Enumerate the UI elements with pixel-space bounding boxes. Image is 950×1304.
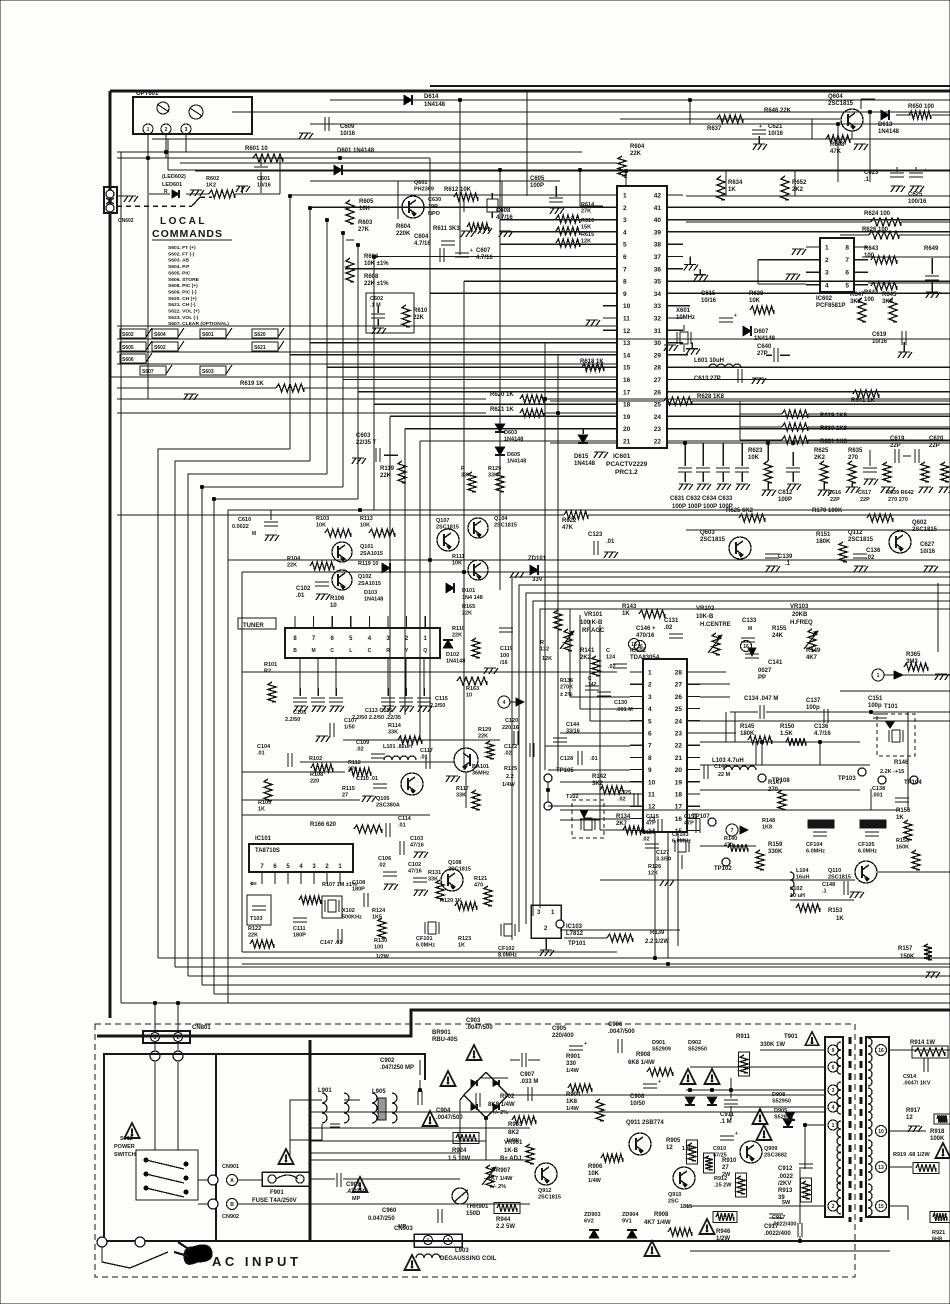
wire T901 pin2 [686,1205,826,1207]
svg-text:+: + [470,248,473,254]
svg-text:12: 12 [623,328,631,335]
svg-text:27: 27 [675,682,683,689]
svg-text:1N4148: 1N4148 [446,659,465,665]
svg-text:100p: 100p [806,705,820,711]
wire x590 drop2 [589,620,591,721]
svg-text:2.2: 2.2 [506,774,514,780]
diode D607 1N4148 [743,326,751,336]
svg-text:+/- 2%: +/- 2% [490,1184,506,1190]
svg-text:R158: R158 [896,838,909,844]
ground IC601 pin36 [699,269,701,275]
svg-text:A: A [230,1178,234,1184]
warning triangle c902 [441,1071,456,1086]
svg-text:10/16: 10/16 [701,298,717,304]
svg-text:10K: 10K [749,298,761,304]
svg-text:S623. VOL (-): S623. VOL (-) [168,315,199,321]
svg-text:R610: R610 [413,308,428,314]
svg-text:10K ±1%: 10K ±1% [364,261,389,267]
svg-text:2SC1815: 2SC1815 [828,101,854,107]
svg-text:180P: 180P [293,933,306,939]
svg-text:C122: C122 [504,744,517,750]
wire IF row y800 [242,799,360,801]
svg-text:22K: 22K [380,473,392,479]
svg-text:500KHz: 500KHz [342,915,362,921]
svg-text:21: 21 [675,755,683,762]
svg-text:24K: 24K [772,633,784,639]
svg-text:D603: D603 [504,430,517,436]
svg-text:47/16: 47/16 [408,869,422,875]
svg-text:T101: T101 [884,704,898,710]
svg-text:22P: 22P [860,497,870,503]
svg-text:R103: R103 [316,516,329,522]
wire tuner top [228,559,950,561]
svg-text:33V: 33V [532,577,543,583]
svg-text:42: 42 [654,193,662,200]
svg-text:6.0MHz: 6.0MHz [858,849,877,855]
svg-text:R912: R912 [714,1176,727,1182]
wire top bus 5 [117,151,582,153]
wire r630 row [740,426,782,428]
wire bus vertical up 5 [357,245,359,499]
svg-text:C905: C905 [552,1026,567,1032]
ground IC601 pin30 [691,343,693,349]
svg-text:330K 1W: 330K 1W [760,1042,785,1048]
svg-text:22P: 22P [830,497,840,503]
svg-text:10K-B: 10K-B [696,614,714,620]
svg-text:R614: R614 [581,202,595,208]
svg-text:R110: R110 [452,626,465,632]
wire r620 [117,398,486,400]
wire IC601 pin 18 [374,403,603,405]
wire top bus y163 [180,162,617,164]
svg-text:R140: R140 [724,836,737,842]
wire r631 row [740,439,782,441]
svg-text:S604. P.P: S604. P.P [168,264,190,270]
svg-text:X601: X601 [676,308,691,314]
wire IF vertical x466 [465,772,467,808]
svg-text:S912: S912 [120,1136,133,1142]
svg-text:CF101: CF101 [416,936,433,942]
svg-text:R620 1K: R620 1K [490,392,514,398]
wire bus vertical up 6 [373,257,375,510]
svg-text:C144: C144 [566,722,580,728]
wire mid verticals [725,712,727,742]
fuse F901 [262,1172,310,1186]
wire vertical x464 [463,281,465,770]
svg-text:POWER: POWER [114,1144,135,1150]
svg-text:10/16: 10/16 [872,339,888,345]
svg-text:H.CENTRE: H.CENTRE [700,622,731,628]
svg-text:C901: C901 [346,1182,361,1188]
svg-text:100p: 100p [868,703,882,709]
svg-text:8K2: 8K2 [508,1130,520,1136]
warning triangle bottom1 [700,1219,715,1234]
resistor R618 1K [582,363,604,371]
warning triangle fuse [279,1149,294,1164]
wire IC102 pin26 right [700,696,730,698]
svg-text:RF.AGC: RF.AGC [582,628,605,634]
svg-text:S52909: S52909 [652,1047,671,1053]
wire vertical x838 top [837,124,839,182]
svg-text:R911: R911 [736,1034,751,1040]
svg-text:L103 4.7uH: L103 4.7uH [712,758,744,764]
wire power row y1128 [310,1127,530,1129]
svg-text:C619: C619 [890,436,905,442]
svg-text:IC602: IC602 [816,296,833,302]
wire vertical x908 [907,712,909,810]
wire mid nest 4 [533,601,950,916]
svg-text:S620: S620 [254,332,266,338]
main board border left [109,91,112,1018]
wire R624 row [686,221,871,223]
wire IF row y762 [300,761,452,763]
svg-text:R611 3K3: R611 3K3 [433,226,460,232]
svg-text:10K: 10K [748,455,760,461]
svg-text:18: 18 [675,792,683,799]
svg-text:10MHz: 10MHz [676,315,695,321]
wire top border right extra [430,85,950,87]
svg-text:TP104: TP104 [904,780,922,786]
svg-text:D901: D901 [652,1040,665,1046]
wire staircase 6 [228,510,374,1003]
svg-text:.02: .02 [664,625,673,631]
wire vertical x870 top [869,112,871,182]
resistor R648 47K [826,135,850,143]
svg-text:C137: C137 [806,698,821,704]
svg-text:R646 22K: R646 22K [764,108,792,114]
svg-text:C126: C126 [642,830,655,836]
svg-text:36: 36 [654,266,662,273]
svg-text:10/50: 10/50 [630,1101,646,1107]
wire power row y1141 [310,1140,486,1142]
wire IC102 pin11 left [572,793,630,795]
wire right section rows [704,957,950,959]
wire pin34 right [683,292,950,294]
crystal CF105 [860,820,886,828]
svg-text:R166 620: R166 620 [310,822,337,828]
svg-text:.0047/500: .0047/500 [608,1029,635,1035]
svg-text:C609: C609 [340,124,355,130]
svg-text:2K7 1/4W: 2K7 1/4W [488,1176,513,1182]
svg-text:R612 10K: R612 10K [444,187,472,193]
svg-text:M: M [312,648,316,654]
svg-text:R908: R908 [636,1052,651,1058]
svg-text:C138: C138 [872,786,885,792]
svg-text:2: 2 [623,205,627,212]
resistor R631 1K8 [782,436,808,444]
opto module OPT601 box [133,97,252,134]
svg-text:Q604: Q604 [828,94,843,100]
svg-text:+: + [658,1079,661,1085]
svg-text:R625: R625 [814,448,829,454]
svg-text:47K: 47K [830,149,842,155]
svg-text:1N4 148: 1N4 148 [462,595,483,601]
plug AC [184,1245,212,1264]
svg-text:R637: R637 [707,126,722,132]
T901 primary pin 2 [828,1201,838,1211]
svg-text:2SC1815: 2SC1815 [494,523,517,529]
svg-text:10: 10 [623,303,631,310]
wire mid row [117,514,564,516]
svg-text:13: 13 [878,1165,884,1171]
svg-text:D605: D605 [507,452,520,458]
svg-text:22P: 22P [929,443,940,449]
svg-text:28: 28 [654,365,662,372]
wire top bus 3 [310,123,950,125]
wire IC601 pin 22 [667,440,950,442]
svg-text:OPT601: OPT601 [136,91,159,97]
wire CN801 down a [154,1043,156,1050]
svg-text:C610: C610 [238,517,251,523]
svg-text:R919 .68 1/2W: R919 .68 1/2W [893,1152,930,1158]
resistor R626 100 [869,231,899,239]
wire IC102 pin27 right [700,683,730,685]
transistor Q107 2SC1815 [437,529,459,551]
svg-text:36MHz: 36MHz [472,771,490,777]
dashed wire CN602 [117,205,192,207]
svg-text:.1: .1 [822,889,827,895]
svg-text:C114: C114 [398,816,412,822]
wire IC601 pin 7 [345,268,603,270]
wire IF row y815 [242,814,430,816]
svg-text:D601 1N4148: D601 1N4148 [337,148,375,154]
wire IC102 pin14 left [600,829,630,831]
svg-text:L101 .82uH: L101 .82uH [383,744,412,750]
capacitor C119 100/16 [499,627,513,629]
wire t901 bottom [216,1240,950,1242]
svg-text:.1: .1 [864,177,870,183]
svg-text:10: 10 [466,693,472,699]
svg-text:S602: S602 [154,345,166,351]
svg-text:R165: R165 [462,604,475,610]
wire power h2 [508,1094,826,1096]
svg-text:1: 1 [832,1123,835,1129]
diode D102 1N4148 [443,640,453,648]
main board border top [110,90,950,93]
svg-text:10/16: 10/16 [257,183,271,189]
svg-text:40: 40 [654,217,662,224]
ground LED area [190,189,202,191]
svg-text:R117: R117 [456,786,469,792]
warning triangle right1 [936,1143,950,1158]
svg-text:4: 4 [648,706,652,713]
svg-text:C134 .047 M: C134 .047 M [744,696,778,702]
svg-text:2SC380A: 2SC380A [376,803,400,809]
svg-text:27P: 27P [757,351,768,357]
svg-text:150K: 150K [900,954,915,960]
resistor R634 1K [717,176,725,200]
svg-text:.02: .02 [356,747,364,753]
wire T901 pin6 [690,1066,826,1068]
svg-text:1K: 1K [622,611,630,617]
wire IC601 pin 1 [290,194,603,196]
wire mid nest 2 [519,585,950,932]
svg-text:2SC3682: 2SC3682 [764,1153,787,1159]
svg-text:470/16: 470/16 [636,633,655,639]
wire IC102 pin6 left [560,732,630,734]
svg-text:4: 4 [503,700,506,706]
resistor R628 1K8 [664,397,692,405]
svg-text:10/16: 10/16 [340,131,356,137]
ground IC602 pin1 [792,248,804,250]
svg-text:ZD903: ZD903 [584,1212,601,1218]
svg-text:38: 38 [654,242,662,249]
switch contacts [144,1158,148,1162]
wire IC102 pin23 right [700,732,736,734]
wire power v460 [459,1100,461,1160]
transistor Q910 2SC1815 [673,1167,695,1189]
wire bus vertical up 4 [342,233,344,487]
svg-text:C104: C104 [257,744,271,750]
svg-text:C120: C120 [505,718,518,724]
svg-text:C125: C125 [618,790,631,796]
svg-text:F901: F901 [270,1190,284,1196]
wire OPT601 pin3 down [185,134,187,152]
svg-text:R141: R141 [580,648,595,654]
svg-text:33K: 33K [388,730,398,736]
svg-text:34: 34 [654,291,662,298]
svg-text:2SC1815: 2SC1815 [538,1195,561,1201]
svg-text:S603. AB: S603. AB [168,258,189,264]
boxed resistor R924 [453,1133,479,1144]
ground R365 [935,673,947,675]
svg-text:33/16: 33/16 [566,729,580,735]
svg-text:47P: 47P [646,821,656,827]
svg-text:330K: 330K [768,849,783,855]
wire IC102 pin3 left [570,696,630,698]
svg-text:S606: S606 [122,357,134,363]
svg-text:R124: R124 [372,908,386,914]
svg-text:28: 28 [675,670,683,677]
op-amp IC601 body and pins [617,186,667,448]
wire power top2 [216,1054,425,1080]
svg-text:3K3: 3K3 [850,299,862,305]
svg-text:15: 15 [623,365,631,372]
svg-text:6.0MHz: 6.0MHz [416,943,435,949]
svg-text:2K2: 2K2 [814,455,826,461]
svg-text:.1 M: .1 M [370,303,381,309]
svg-text:6V2: 6V2 [584,1219,594,1225]
resistor R652 2K2 [781,176,789,200]
svg-text:D905: D905 [774,1108,787,1114]
circ16 [741,641,752,652]
zener ZD904 [627,1230,637,1238]
svg-text:2: 2 [165,127,168,133]
svg-text:C136: C136 [866,548,881,554]
svg-text:C960: C960 [382,1208,397,1214]
node 7 arrow [726,824,738,836]
wire tp105 vertical [547,782,549,802]
wire q604 collector [860,99,862,109]
op-amp IC101 body [249,844,353,872]
bridge diodes [471,1080,477,1086]
svg-text:R115: R115 [342,786,355,792]
svg-text:47K: 47K [562,525,574,531]
wire tuner pin drop a [299,658,301,688]
svg-text:R621 1K: R621 1K [490,407,514,413]
svg-text:R649: R649 [924,246,939,252]
svg-text:Q105: Q105 [376,796,389,802]
TUNER label box [238,618,276,629]
svg-text:D102: D102 [446,652,459,658]
wire IC601 pin 40 [667,219,950,221]
svg-text:1N4148: 1N4148 [504,437,523,443]
switch S912 [136,1150,198,1200]
svg-text:4K7: 4K7 [806,655,818,661]
svg-text:TP103: TP103 [838,776,856,782]
ground X601 area [664,344,676,346]
svg-text:X102: X102 [342,908,355,914]
svg-text:6: 6 [832,1065,835,1071]
svg-text:CF102: CF102 [498,946,515,952]
svg-text:T102: T102 [566,794,579,800]
svg-text:41: 41 [654,205,662,212]
svg-text:27: 27 [722,1165,729,1171]
svg-text:.01: .01 [257,751,265,757]
svg-text:Q102: Q102 [358,574,371,580]
svg-text:.02: .02 [378,863,386,869]
connector CN801 [143,1031,190,1043]
svg-text:C907: C907 [520,1072,535,1078]
svg-text:R914 1W: R914 1W [910,1040,935,1046]
svg-text:R616: R616 [581,218,594,224]
svg-text:1: 1 [877,673,880,679]
capacitor C139 .1 [765,553,779,555]
svg-text:L104: L104 [796,868,809,874]
wire pin21 row extension [550,442,617,444]
svg-text:.0022/400: .0022/400 [764,1231,791,1237]
svg-text:D607: D607 [754,329,769,335]
svg-text:100: 100 [500,653,509,659]
svg-text:220K: 220K [396,231,411,237]
svg-text:1: 1 [648,670,652,677]
wire top bus 1 [330,99,950,101]
wire fuse row [310,1178,335,1180]
svg-text:C: C [368,648,372,654]
svg-text:C619: C619 [872,332,887,338]
svg-text:L901: L901 [318,1088,332,1094]
svg-text:D614: D614 [424,94,439,100]
capacitor row tuner bottom [293,697,307,699]
wire T901 pin13 [889,1166,912,1168]
svg-text:C917: C917 [772,1215,785,1221]
diode D103 1N4148 [382,563,390,573]
svg-text:100P 100P 100P 100P: 100P 100P 100P 100P [672,504,733,510]
svg-text:.01: .01 [590,756,598,762]
wire T901 pin9 [760,1049,826,1051]
svg-text:4: 4 [832,1105,835,1111]
svg-text:VR102: VR102 [696,606,715,612]
svg-text:6.0MHz: 6.0MHz [672,839,691,845]
capacitor C914 .0047/1KV [923,1058,925,1072]
wire power row y1095b [480,1077,508,1079]
svg-text:PCACTV2229: PCACTV2229 [606,461,648,468]
svg-text:C107: C107 [344,718,357,724]
thermistor THR901 [452,1188,468,1204]
svg-text:R635: R635 [848,448,863,454]
svg-text:Q101: Q101 [360,544,373,550]
vertical wire x527 [526,91,528,196]
wire mid row y810 [560,809,900,811]
svg-text:C151: C151 [684,814,697,820]
svg-text:1/4W: 1/4W [566,1106,580,1112]
wire vertical x795 top [794,171,796,196]
svg-text:CN902: CN902 [222,1214,239,1220]
svg-text:1: 1 [147,127,150,133]
svg-text:16: 16 [675,816,683,823]
svg-text:CN602: CN602 [118,218,134,224]
svg-text:R113: R113 [360,516,373,522]
